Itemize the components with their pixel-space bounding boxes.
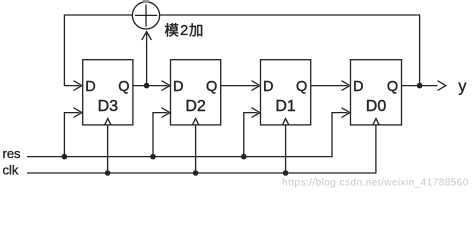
wire res to D3 reset input: [64, 108, 82, 157]
wire feedback from node y to XOR right input: [160, 15, 420, 86]
wire clk to D2 clock: [195, 125, 197, 173]
svg-text:y: y: [458, 77, 467, 95]
wire res to D1 reset input: [244, 108, 260, 157]
node res-D2 junction: [150, 154, 156, 160]
flip-flop D0 box: [351, 60, 402, 125]
svg-text:D: D: [173, 79, 183, 95]
xor adder U1: [132, 0, 159, 29]
clock triangle of D2: [192, 119, 198, 125]
node clk-D3 junction: [105, 170, 111, 176]
svg-text:https://blog.csdn.net/weixin_4: https://blog.csdn.net/weixin_41788560: [282, 177, 469, 188]
wire clk to D1 clock: [285, 125, 287, 173]
node y junction: [417, 83, 423, 89]
wire res net bus: [27, 108, 350, 157]
wire XOR output to D3 D input: [64, 15, 132, 91]
label 模2加: [165, 23, 202, 39]
svg-text:Q: Q: [387, 79, 398, 95]
svg-text:Q: Q: [118, 79, 129, 95]
wire D3.Q to D2.D: [133, 81, 170, 91]
flip-flop D1 box: [261, 60, 311, 125]
flip-flop D2 box: [171, 60, 221, 125]
svg-text:D: D: [353, 79, 363, 95]
svg-text:res: res: [3, 146, 22, 161]
svg-text:D0: D0: [366, 98, 387, 115]
wire clk to D3 clock: [107, 125, 109, 173]
svg-text:D3: D3: [98, 98, 119, 115]
node res-D1 junction: [241, 154, 247, 160]
node clk-D2 junction: [193, 170, 199, 176]
svg-text:clk: clk: [3, 162, 19, 177]
svg-text:2: 2: [180, 23, 188, 39]
wire D0.Q to output y: [402, 81, 446, 91]
wire D1.Q to D0.D: [311, 81, 350, 91]
svg-text:Q: Q: [206, 79, 217, 95]
clock triangle of D0: [373, 119, 379, 125]
svg-text:D2: D2: [185, 98, 206, 115]
svg-text:Q: Q: [296, 79, 307, 95]
clock triangle of D1: [282, 119, 288, 125]
svg-text:D: D: [85, 79, 95, 95]
svg-text:D1: D1: [275, 98, 296, 115]
wire Q3 node to XOR bottom input: [142, 32, 152, 86]
svg-text:D: D: [263, 79, 273, 95]
node clk-D1 junction: [283, 170, 289, 176]
wire clk net bus: [27, 125, 376, 173]
flip-flop D3 box: [83, 60, 133, 125]
node res-D3 junction: [62, 154, 68, 160]
clock triangle of D3: [105, 119, 111, 125]
wire D2.Q to D1.D: [221, 81, 260, 91]
wire res to D2 reset input: [153, 108, 170, 157]
node Q3 junction: [144, 83, 150, 89]
